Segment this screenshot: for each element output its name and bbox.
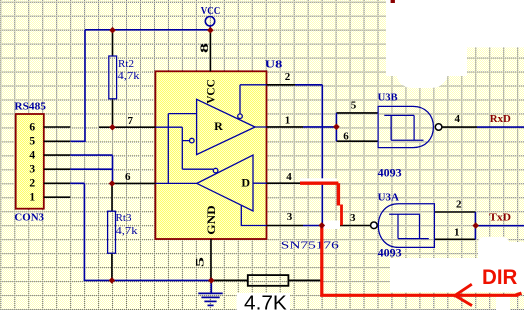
svg-text:U8: U8 — [265, 59, 283, 71]
svg-text:D: D — [241, 176, 250, 190]
svg-text:6: 6 — [125, 171, 131, 183]
svg-text:5: 5 — [351, 100, 357, 112]
svg-text:3: 3 — [29, 163, 35, 175]
svg-text:RS485: RS485 — [14, 101, 46, 113]
svg-text:8: 8 — [197, 43, 211, 53]
svg-text:1: 1 — [285, 115, 291, 127]
svg-text:4: 4 — [29, 149, 35, 161]
svg-text:Rt2: Rt2 — [118, 58, 134, 70]
svg-text:VCC: VCC — [204, 79, 218, 104]
svg-text:4,7k: 4,7k — [116, 225, 139, 237]
svg-text:U3B: U3B — [378, 92, 399, 104]
svg-text:SN75176: SN75176 — [281, 241, 339, 252]
svg-text:3: 3 — [287, 211, 293, 223]
svg-text:1: 1 — [454, 227, 460, 239]
svg-text:4093: 4093 — [378, 246, 402, 260]
svg-text:7: 7 — [127, 115, 133, 127]
svg-text:RxD: RxD — [490, 114, 511, 125]
svg-text:1: 1 — [29, 191, 35, 203]
svg-text:4: 4 — [454, 113, 460, 125]
svg-text:DIR: DIR — [482, 266, 517, 289]
svg-text:6: 6 — [343, 131, 349, 143]
svg-text:4,7k: 4,7k — [118, 70, 141, 82]
svg-text:5: 5 — [29, 136, 35, 148]
svg-text:5: 5 — [193, 257, 207, 267]
svg-text:R: R — [214, 119, 223, 133]
svg-text:TxD: TxD — [489, 213, 511, 224]
svg-text:VCC: VCC — [201, 5, 221, 17]
svg-text:6: 6 — [29, 121, 35, 133]
svg-text:3: 3 — [350, 212, 356, 224]
svg-text:2: 2 — [456, 199, 462, 211]
svg-text:4093: 4093 — [378, 166, 402, 180]
svg-text:U3A: U3A — [378, 192, 399, 204]
svg-text:4.7K: 4.7K — [244, 293, 287, 315]
svg-text:2: 2 — [285, 71, 291, 83]
svg-text:4: 4 — [286, 171, 292, 183]
svg-text:2: 2 — [29, 178, 35, 190]
svg-text:CON3: CON3 — [14, 212, 44, 224]
svg-text:GND: GND — [204, 205, 218, 235]
svg-text:Rt3: Rt3 — [116, 212, 132, 224]
